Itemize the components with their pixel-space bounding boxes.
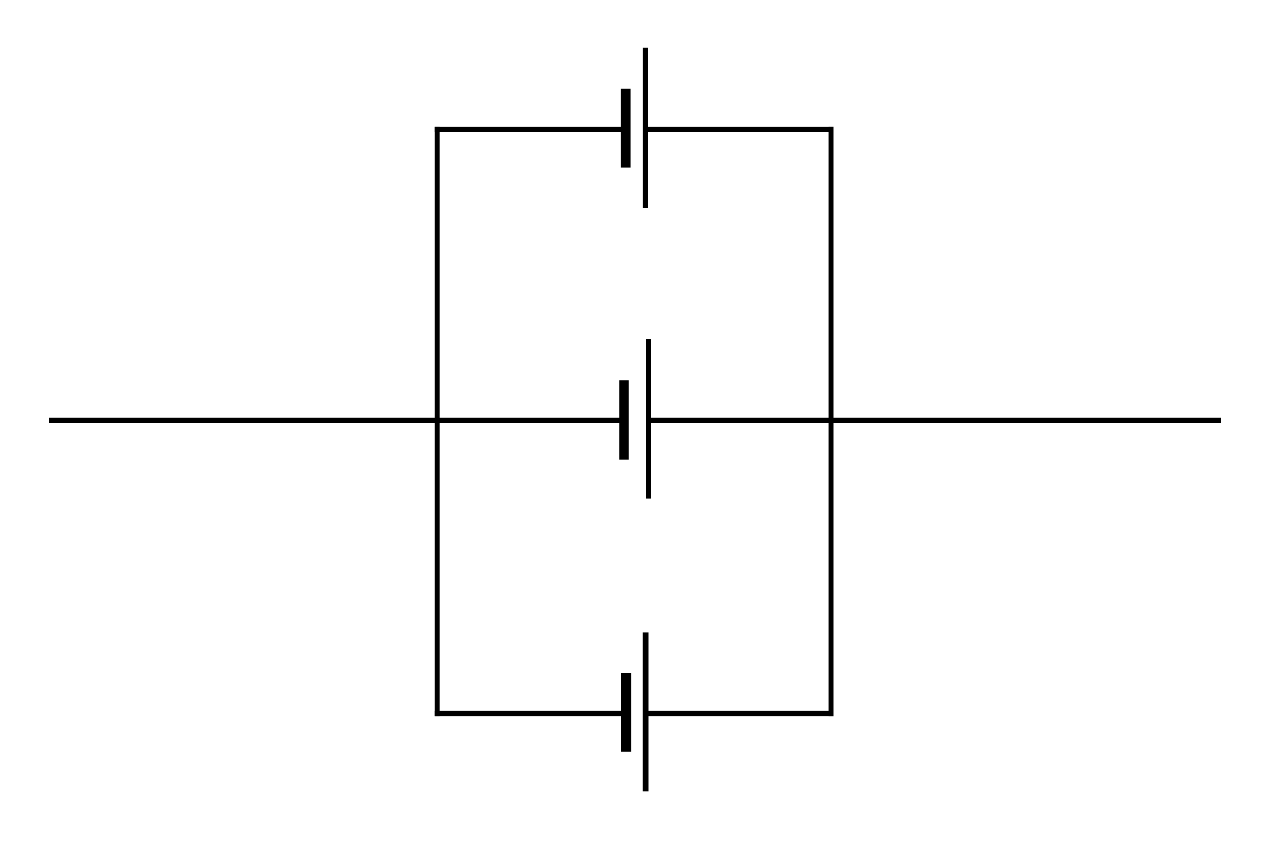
BT3 positive plate (long thin bar) xyxy=(643,632,649,791)
wire: right vertical bus of parallel loop (junction with middle net at x=831) xyxy=(829,127,834,716)
wire: top branch, right segment (cell BT1 to right bus) xyxy=(645,127,834,132)
BT1 positive plate (long thin bar) xyxy=(643,48,648,208)
wire: left vertical bus of parallel loop (junction with middle net at x=437) xyxy=(435,127,440,716)
BT1 negative plate (short thick bar) xyxy=(621,89,631,168)
wire: top branch, left segment (left bus to cell BT1) xyxy=(435,127,626,132)
wire: middle horizontal net, right segment (right lead out of cell BT2) xyxy=(648,418,1221,423)
BT2 positive plate (long thin bar) xyxy=(646,339,651,499)
battery cell BT1 (top branch) xyxy=(621,48,648,208)
battery cell BT2 (middle branch) xyxy=(619,339,651,499)
wire: bottom branch, right segment (cell BT3 to right bus) xyxy=(645,711,834,716)
BT3 negative plate (short thick bar) xyxy=(621,673,631,752)
wire: bottom branch, left segment (left bus to cell BT3) xyxy=(435,711,626,716)
BT2 negative plate (short thick bar) xyxy=(619,380,629,460)
battery cell BT3 (bottom branch) xyxy=(621,632,649,791)
wire: middle horizontal net, left segment (left lead into cell BT2) xyxy=(49,418,624,423)
